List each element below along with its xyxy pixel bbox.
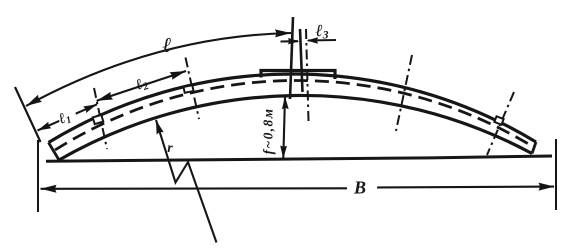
dimension line l3 left tail [281, 40, 299, 42]
panel tick 2 [186, 58, 200, 120]
svg-text:r: r [167, 141, 173, 156]
dimension line l2 [97, 71, 186, 101]
dimension line l [26, 33, 291, 106]
left end face [49, 143, 60, 161]
joint plate 4 [494, 116, 503, 124]
dimension line l3 right tail [308, 39, 336, 42]
B right extension line [555, 139, 557, 210]
crown joint plate right edge [300, 29, 303, 92]
svg-text:B: B [353, 178, 366, 198]
B dimension line left [41, 187, 348, 190]
panel tick 4 [487, 92, 514, 155]
arch bottom chord [59, 95, 532, 160]
crown panel centerline (dash-dot) [306, 29, 309, 121]
label l1 [56, 106, 77, 124]
rise dimension line f [283, 97, 285, 158]
arch dashed centerline [55, 80, 534, 150]
joint plate 1 [93, 115, 104, 124]
panel tick 1 [94, 88, 107, 149]
crown joint plate left edge [290, 17, 293, 99]
joint plate 2 [183, 85, 193, 93]
svg-text:ℓ: ℓ [163, 33, 172, 57]
right end face [532, 142, 536, 154]
baseline (springing line) [46, 156, 552, 161]
radius leader r [156, 120, 217, 243]
svg-text:f~0,8м: f~0,8м [261, 108, 276, 155]
B dimension line right [377, 186, 554, 189]
panel tick 3 [396, 55, 412, 131]
arch top chord [49, 74, 537, 142]
crown cover plate [261, 71, 335, 80]
B left extension line [37, 140, 39, 212]
dimension line l1 [38, 104, 98, 130]
left extension line [15, 87, 41, 142]
